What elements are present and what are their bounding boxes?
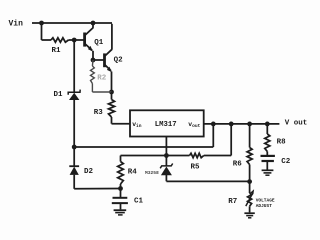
svg-text:R3: R3 xyxy=(94,109,104,117)
svg-text:C1: C1 xyxy=(134,197,144,205)
svg-text:R6: R6 xyxy=(233,160,243,168)
svg-text:R1: R1 xyxy=(52,47,62,55)
svg-text:Q1: Q1 xyxy=(94,39,104,47)
svg-text:D2: D2 xyxy=(84,168,94,176)
svg-text:Q2: Q2 xyxy=(114,57,124,65)
svg-text:Vin: Vin xyxy=(9,19,24,28)
svg-text:R8: R8 xyxy=(277,139,287,147)
svg-text:R7: R7 xyxy=(228,198,237,206)
svg-text:R4: R4 xyxy=(128,169,138,177)
svg-text:LM317: LM317 xyxy=(155,121,177,129)
svg-text:ADJUST: ADJUST xyxy=(256,203,273,209)
svg-text:C2: C2 xyxy=(281,158,291,166)
svg-text:M3258: M3258 xyxy=(145,170,159,176)
svg-text:D1: D1 xyxy=(54,91,64,99)
svg-text:R5: R5 xyxy=(191,163,201,171)
svg-text:R2: R2 xyxy=(97,74,107,82)
svg-text:V out: V out xyxy=(285,120,308,128)
svg-text:VOLTAGE: VOLTAGE xyxy=(256,198,275,204)
